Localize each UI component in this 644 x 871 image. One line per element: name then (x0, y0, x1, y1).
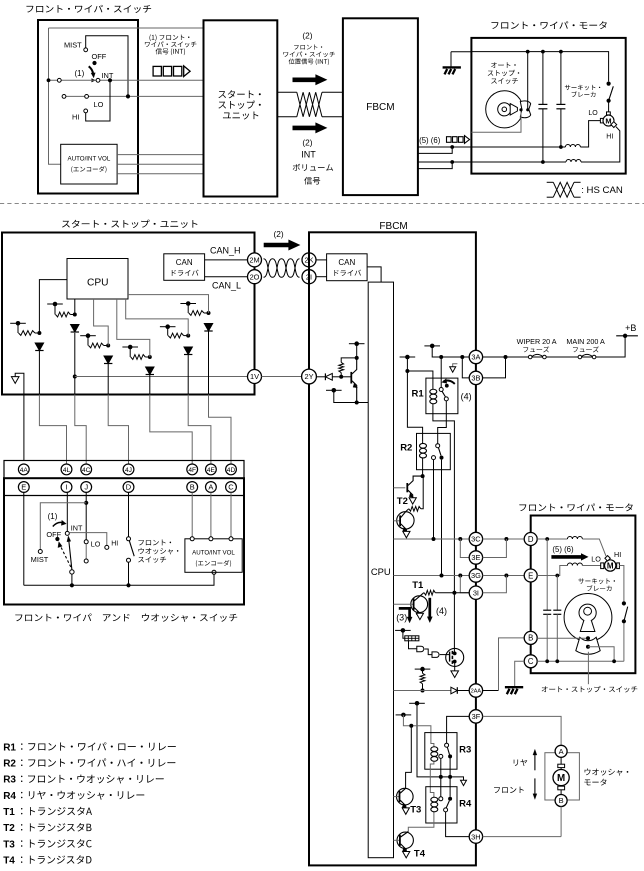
svg-text:AUTO/INT VOL: AUTO/INT VOL (68, 156, 111, 163)
svg-text:2Y: 2Y (304, 372, 313, 381)
wire: +B down (616, 336, 625, 357)
auto-stop wiper skirt (576, 637, 600, 654)
node C-autostop (612, 659, 616, 663)
svg-text:I: I (65, 483, 67, 492)
wire: B row (537, 637, 586, 639)
pin 1V (248, 370, 262, 384)
wire: LO feed (top) (580, 121, 600, 147)
auto-stop contact a (519, 108, 522, 111)
wire: 3F to R3 common (447, 716, 470, 743)
connector letters divider (4, 495, 244, 497)
pin 4D (226, 464, 237, 475)
node E-cap2 (555, 574, 559, 578)
spring return symbol R4 (461, 780, 467, 785)
contact LO-aux (84, 559, 88, 563)
switch contact MIST (86, 36, 128, 97)
svg-text:MIST: MIST (31, 555, 49, 564)
svg-text:3A: 3A (471, 353, 480, 362)
wire: CPU to cell-4F (117, 299, 150, 357)
svg-text:HI: HI (614, 550, 621, 559)
terminal stub R1R2 supply (400, 356, 416, 358)
label: washer motor (585, 768, 629, 775)
contact encoder A (209, 537, 213, 541)
svg-text:B: B (559, 796, 564, 805)
node corridor-R3NC (439, 775, 443, 779)
wire: CAN twisted pair (top left) (277, 91, 297, 93)
wire: 4C jog (75, 395, 86, 465)
pin 4A (18, 464, 29, 475)
contact LO row right (85, 95, 89, 99)
circuit breaker (top) (607, 82, 611, 86)
node pull-up top (355, 356, 359, 360)
contact auto-stop 1 (586, 636, 590, 640)
wire: LO row to start-stop unit (62, 95, 204, 97)
CAN driver box (unit) (164, 254, 205, 280)
svg-text:LO: LO (591, 554, 601, 563)
capacitor C2 (lower) (556, 576, 558, 611)
pin 3H (469, 830, 482, 843)
wire: encoder out 3 (117, 173, 204, 175)
svg-text:HI: HI (111, 541, 118, 548)
node 3C-R2NC (432, 537, 436, 541)
node INT row junction (108, 78, 112, 82)
gate buffer 1 (417, 646, 424, 652)
wire: 3C to D (483, 538, 525, 540)
wire: supply to R1 coil (407, 371, 433, 388)
contact LO (lower) (84, 540, 88, 544)
transistor Q-2Y (350, 372, 352, 384)
svg-text:LO: LO (588, 110, 598, 117)
wire: 2K to CAN driver (316, 259, 327, 261)
wire: cell-4L to box bottom (38, 351, 40, 395)
wire: stub cell-4C down (54, 304, 56, 315)
node 3C-3E (458, 537, 462, 541)
wire: CPU to cell-4D (128, 295, 209, 313)
contact INT row left (57, 78, 61, 82)
svg-text:OFF: OFF (92, 52, 107, 61)
svg-text:3I: 3I (473, 588, 479, 597)
pin 2K (302, 253, 316, 267)
wire: ground to wiper motor (451, 51, 471, 53)
wire: motor supply top rail (471, 52, 608, 82)
wire: B to 2AA (499, 638, 525, 691)
relay R3 box (425, 733, 457, 770)
svg-text:R2: R2 (3, 758, 16, 769)
wire: 4D jog (209, 395, 232, 465)
svg-text:T4: T4 (3, 855, 15, 866)
svg-text:T1: T1 (412, 580, 424, 591)
pin A (206, 482, 217, 493)
wire: INT row to start-stop unit (49, 79, 205, 81)
node C-cap2 (555, 659, 559, 663)
wire: stub cell-4L down (17, 323, 19, 333)
svg-text:M: M (605, 116, 611, 125)
auto-stop plate (lower) (564, 594, 612, 642)
contact R3 NO (448, 754, 452, 758)
svg-text:HI: HI (72, 113, 79, 122)
motor M (lower) (601, 563, 604, 569)
wire: 2Y input (316, 376, 325, 378)
node 1V junction (73, 375, 77, 379)
node 3A-3B outside (504, 355, 508, 359)
wire: pivot to bus (71, 574, 73, 585)
terminal stub 2Y circuit (349, 343, 365, 345)
wire: FBCM to motor HI 2 (418, 162, 452, 169)
svg-text:2M: 2M (249, 256, 259, 265)
svg-text:(5) (6): (5) (6) (419, 136, 441, 145)
wire: R1 contact feed (440, 357, 442, 388)
terminal stub cell-4L (10, 322, 26, 324)
svg-text:MIST: MIST (64, 41, 82, 50)
contact HI (lower) (105, 545, 109, 549)
svg-text:+B: +B (625, 323, 636, 333)
svg-text:CPU: CPU (87, 277, 109, 288)
emitter return T2a (409, 498, 416, 504)
node cell-4F junction (148, 355, 152, 359)
node cell-4L junction (37, 331, 41, 335)
svg-text:M: M (557, 773, 565, 784)
contact R4 NO (444, 808, 448, 812)
svg-text:R1: R1 (3, 742, 16, 753)
node 5-6 join HI (450, 160, 454, 164)
wire: T3 collector feed (406, 726, 412, 789)
wire: 1V line (75, 376, 248, 378)
ferrite coil D (567, 537, 582, 540)
twisted pair HS CAN (top) (297, 92, 322, 117)
label: start-stop unit title (62, 220, 197, 228)
label: front wiper and washer switch (15, 614, 237, 622)
pin B (187, 482, 198, 493)
contact R3 common (445, 743, 449, 747)
svg-text:FBCM: FBCM (379, 221, 407, 232)
svg-text:4A: 4A (20, 467, 29, 474)
wire: stub to sensor (403, 630, 405, 638)
leader: auto stop switch (587, 652, 589, 684)
wire: CAN driver to CPU (367, 267, 381, 282)
contact R2 NO (440, 456, 444, 460)
wire: gate2 to mosfet (440, 654, 450, 656)
wire: D to HI contact (582, 539, 606, 556)
svg-text:3G: 3G (471, 571, 481, 580)
pin C (226, 482, 237, 493)
svg-text:T3: T3 (3, 839, 15, 850)
label: circuit breaker (top) (565, 85, 600, 91)
transistor T2a (394, 487, 406, 489)
svg-text:T2: T2 (3, 823, 15, 834)
spring return symbol R1 (453, 364, 458, 367)
wire: CPU to cell-4L (39, 280, 67, 333)
node 3C-3E outside (504, 537, 508, 541)
wire: washer switch to bus (128, 562, 130, 585)
svg-text:3H: 3H (471, 832, 480, 841)
svg-text:R1: R1 (412, 389, 425, 400)
svg-text:R2: R2 (400, 442, 412, 453)
svg-text:(2): (2) (302, 137, 312, 147)
wire: 4E jog (188, 395, 211, 465)
wire: E to bus (23, 492, 25, 585)
wire: I to INT contact (66, 492, 68, 531)
node rail-cap2 (559, 50, 563, 54)
wire: 3I tie (460, 576, 469, 593)
pin 3A (469, 350, 482, 363)
svg-text:3E: 3E (471, 553, 480, 562)
label: auto stop switch (top) (491, 62, 516, 68)
transistor T2b (397, 512, 414, 529)
terminal stub 3A-1 (424, 345, 440, 347)
contact R2 common (436, 444, 440, 448)
data flow arrow (switch signal) (153, 66, 161, 76)
node R2 coil-driver (421, 474, 425, 478)
wire: CPU to cell-4J (94, 299, 109, 346)
svg-text:1V: 1V (250, 372, 259, 381)
svg-text:T4: T4 (414, 848, 426, 859)
wire: 3F to washer A (483, 716, 561, 745)
pin 2Y (302, 369, 317, 384)
contact OFF (lower) (55, 537, 59, 541)
wire: supply to R2 coil (407, 357, 422, 441)
svg-text:(4): (4) (436, 606, 447, 616)
emitter return T3 (402, 808, 409, 814)
contact MIST (lower) (38, 550, 42, 554)
diode cell-4F (146, 367, 154, 375)
auto-stop contact b (526, 108, 529, 111)
relay R1 actuate arrow (444, 380, 455, 383)
washer motor M (558, 764, 565, 767)
wire: stub cell-4F down (129, 347, 131, 357)
resistor cell-4J (89, 343, 104, 348)
wire: R4 coil to T4 (408, 813, 434, 832)
wire: CAN driver to 2O (205, 276, 248, 278)
gate buffer 2 (432, 652, 439, 658)
node 3G-3I (458, 574, 462, 578)
washer terminal B (555, 795, 567, 807)
svg-text:3F: 3F (472, 712, 481, 721)
terminal stub R3 supply (396, 714, 412, 716)
svg-text:CAN: CAN (338, 258, 355, 267)
svg-text:D: D (528, 535, 534, 544)
pin 2O (248, 270, 262, 284)
capacitor C-b (top) (560, 52, 562, 105)
svg-text:(2): (2) (302, 30, 312, 40)
pin C (524, 655, 537, 668)
svg-text:4D: 4D (227, 467, 236, 474)
svg-text:(1): (1) (48, 512, 58, 521)
svg-text:E: E (21, 483, 26, 492)
data arrow small (top) (447, 137, 452, 143)
pin 4C (81, 464, 92, 475)
contact R1 common (439, 388, 443, 392)
pin D (123, 482, 134, 493)
node mosfet drain (453, 652, 457, 656)
contact R4 common (448, 797, 452, 801)
wire: 4F jog (150, 395, 192, 465)
signal arrow (5)(6) (551, 553, 588, 560)
transistor T3 (397, 788, 414, 805)
svg-text:4E: 4E (207, 467, 216, 474)
svg-text:(3): (3) (396, 612, 407, 622)
node C-cap1 (545, 659, 549, 663)
wire: R3 NO to R4 (449, 756, 451, 796)
node cell-4E junction (186, 334, 190, 338)
pin 2M (248, 253, 262, 267)
node supply-R1 (405, 369, 409, 373)
relay R2 box (417, 433, 451, 469)
terminal stub cell-4D (180, 303, 196, 305)
wire: switch common bus (24, 574, 214, 585)
wire: sensor to gate1 (409, 641, 417, 649)
label: auto stop switch (lower) (542, 686, 638, 693)
pin 4F (187, 464, 198, 475)
node emitter (355, 401, 359, 405)
diode cell-4C (71, 325, 79, 333)
washer terminal A (555, 745, 567, 757)
wire: cell-4C down (74, 333, 76, 395)
svg-text:R4: R4 (459, 798, 472, 809)
svg-text:B: B (190, 483, 195, 492)
svg-text:E: E (528, 571, 533, 580)
CPU box (FBCM) (368, 282, 393, 858)
svg-text:OFF: OFF (46, 530, 61, 539)
wire: FBCM to motor LO 1 (418, 146, 472, 148)
resistor cell-4E (168, 333, 184, 338)
wire: auto-stop to motor case (471, 112, 521, 133)
contact HI diamond (lower) (605, 556, 610, 561)
contact R4 a (439, 797, 443, 801)
wire: inner left bus (49, 28, 61, 164)
pin J (81, 482, 92, 493)
svg-text:3B: 3B (471, 374, 480, 383)
node 2AA-res (421, 689, 425, 693)
resistor cell-4C (56, 312, 71, 317)
pin 2I (302, 270, 316, 284)
terminal stub emitter (326, 389, 342, 391)
transistor T4 (397, 832, 413, 848)
svg-text:CAN_L: CAN_L (212, 280, 241, 290)
wire: stub cell-4E down (167, 327, 169, 336)
relay R4 coil (433, 796, 435, 799)
wire: 3A to fuses (483, 356, 616, 358)
wire: C to chassis ground (515, 661, 525, 687)
wire: HI to INT junction (86, 80, 110, 121)
node 3A-R1 (439, 355, 443, 359)
fuse MAIN 200A (578, 355, 596, 359)
wire: R3 coil feed (403, 715, 434, 747)
pin E (18, 482, 29, 493)
washer motor frame (545, 753, 580, 800)
emitter return T2b (403, 531, 410, 537)
ferrite coil LO (top) (565, 145, 580, 148)
terminal stub cell-4E (160, 326, 176, 328)
wire: 3B tie inside (462, 357, 469, 378)
pin E (524, 569, 537, 582)
legend: HS CAN symbol (547, 181, 554, 183)
FBCM box (top) (343, 18, 418, 195)
resistor cell-4D (189, 311, 204, 316)
washer switch contact bottom (127, 558, 131, 562)
label front arrow (494, 787, 524, 793)
wire: 3G to E (483, 575, 525, 577)
node rail-autostop (526, 50, 530, 54)
wire: HI feed (top) (471, 161, 566, 163)
svg-text:(5) (6): (5) (6) (552, 545, 574, 554)
front wiper motor box (top) (471, 38, 625, 174)
svg-text:C: C (528, 657, 534, 666)
ground (top) (450, 52, 452, 67)
ground chassis motor (505, 686, 523, 688)
svg-text:4C: 4C (82, 467, 91, 474)
wire: R4 contact to 3H (446, 812, 470, 837)
wire: C row (537, 660, 624, 662)
wire: drain up to T1 node (453, 593, 455, 654)
node 3G-R2NO (440, 574, 444, 578)
pin 4E (206, 464, 217, 475)
resistor T1 collector (424, 590, 435, 595)
CAN bus arrow (264, 240, 301, 251)
pin 3I (469, 586, 482, 599)
AUTO/INT VOL encoder box (lower) (185, 539, 242, 573)
separator dashed line (0, 203, 644, 205)
relay R2 coil (422, 441, 424, 443)
wire: E to LO cap (582, 565, 600, 567)
wire: R2 NO to 3G line (441, 460, 443, 576)
wiper arm (lower) (69, 540, 72, 570)
svg-text:A: A (559, 747, 564, 756)
wire: LO to aux contact (85, 544, 87, 559)
mosfet Q-washer (446, 648, 464, 666)
relay R1 arm (442, 391, 446, 397)
fuse WIPER 20A (528, 355, 546, 359)
svg-text:(4): (4) (461, 392, 472, 402)
contact pivot (lower) (70, 570, 74, 574)
pin B (524, 631, 537, 644)
wire: emitter network (334, 390, 368, 402)
wire: MIST branch (40, 503, 86, 550)
ground stub in unit (15, 373, 24, 460)
washer switch contact top (127, 537, 131, 541)
svg-text:M: M (607, 562, 614, 571)
wire: encoder out 2 (117, 163, 204, 165)
wire: D to washer switch (128, 492, 130, 536)
node bus-pivot (70, 583, 74, 587)
wire: 2I to CAN driver (316, 276, 327, 278)
wire: cell-4D down (208, 331, 210, 395)
contact auto-stop 2 (586, 645, 590, 649)
svg-text:T3: T3 (410, 805, 421, 816)
node 3G-3I outside (504, 574, 508, 578)
wire: CAN twisted pair (top right) (322, 91, 343, 93)
wiper arm pointer to INT (92, 79, 96, 83)
node cell-4D junction (207, 311, 211, 315)
svg-text:4L: 4L (63, 467, 71, 474)
wire: 3B tie outside (483, 357, 506, 378)
label: front wiper motor title (lower) (519, 503, 632, 511)
node 5-6 join LO (450, 145, 454, 149)
wire: INT to HI contact (69, 533, 107, 546)
svg-text:D: D (126, 483, 132, 492)
diode cell-4J (104, 356, 112, 364)
wire: source to ground (454, 662, 456, 671)
label circuit breaker (lower) (578, 578, 615, 584)
diode 2AA (451, 687, 457, 694)
terminal stub cell-4F (122, 346, 138, 348)
capacitor C-a (top) (542, 52, 544, 105)
capacitor C1 (lower) (546, 539, 548, 610)
wire: gate1 to gate2 (425, 649, 432, 655)
contact LO row left (62, 95, 66, 99)
contact R2 NC (432, 456, 436, 460)
node 2Y-base (339, 375, 343, 379)
front wiper motor box (lower) (531, 516, 636, 674)
